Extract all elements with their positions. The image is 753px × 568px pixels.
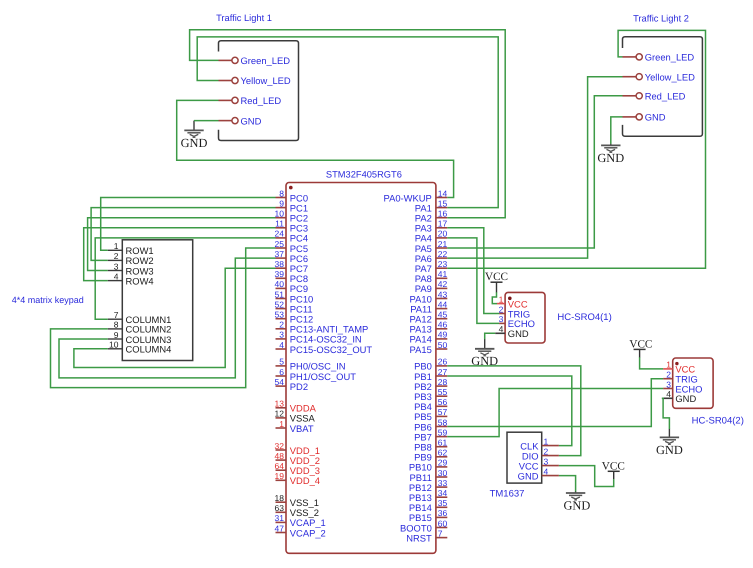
U1 pin 33 PB12 [409,478,448,493]
svg-text:GND: GND [656,443,683,457]
svg-text:Green_LED: Green_LED [241,55,291,66]
microcontroller U1 STM32F405RGT6 [286,170,436,554]
svg-text:19: 19 [275,471,285,481]
svg-text:1: 1 [666,360,671,370]
svg-text:10: 10 [109,340,119,350]
U1 pin 12 VSSA [275,409,316,424]
svg-text:2: 2 [666,370,671,380]
svg-text:3: 3 [499,314,504,324]
svg-text:TM1637: TM1637 [490,488,525,499]
svg-text:3: 3 [114,261,119,271]
svg-text:GND: GND [675,393,696,404]
svg-text:1: 1 [499,294,504,304]
U1 pin 14 PA0-WKUP [384,188,448,203]
HC-SR04(2) pin 4 GND [662,389,697,404]
svg-text:61: 61 [438,438,448,448]
HC-SRO4(1) pin 2 TRIG [499,304,531,319]
svg-text:49: 49 [438,330,448,340]
svg-text:HC-SRO4(1): HC-SRO4(1) [557,312,611,323]
power symbol VCC at HC-SRO4(1) [485,271,508,293]
ground symbol at TM1637 [563,491,590,512]
wire PA4 to HC-SRO4(1) ECHO [447,238,499,324]
HC-SRO4(1) pin 1 VCC [497,294,528,309]
svg-text:NRST: NRST [406,532,432,543]
traffic light module Traffic Light 1 [216,13,298,141]
U1 pin 41 PA8 [415,269,448,284]
svg-text:3: 3 [666,379,671,389]
wire PA2 to TL1 Green_LED [190,30,506,218]
power symbol VCC at HC-SR04(2) [629,339,652,358]
traffic light module Traffic Light 2 [623,14,703,137]
ultrasonic module HC-SR04(2) [673,358,713,408]
svg-text:31: 31 [275,513,285,523]
svg-text:26: 26 [438,357,448,367]
svg-text:35: 35 [438,498,448,508]
svg-text:33: 33 [438,478,448,488]
wire PC1 to keypad ROW2 [91,208,275,261]
keypad pin 3 ROW3 [108,261,154,276]
svg-text:47: 47 [275,523,285,533]
U1 pin 26 PB0 [414,357,447,372]
U1 pin 32 VDD_1 [275,441,321,456]
svg-text:8: 8 [279,188,284,198]
svg-text:36: 36 [438,508,448,518]
U1 pin 23 PA7 [415,259,448,274]
wire PC7 to keypad COLUMN4 [74,268,276,367]
U1 pin 60 BOOT0 [400,518,448,533]
U1 pin 51 PC10 [275,289,314,304]
svg-text:37: 37 [275,249,285,259]
svg-text:59: 59 [438,427,448,437]
wire PA3 to HC-SRO4(1) TRIG [447,228,499,314]
svg-text:63: 63 [275,503,285,513]
TL1 pin Yellow_LED [219,75,291,86]
svg-text:Green_LED: Green_LED [645,52,695,63]
svg-text:15: 15 [438,198,448,208]
svg-text:Red_LED: Red_LED [645,91,686,102]
svg-text:29: 29 [438,458,448,468]
svg-text:GND: GND [518,470,539,481]
TL1 pin Green_LED [219,55,291,66]
TM1637 pin 3 VCC [519,456,559,471]
svg-text:45: 45 [438,310,448,320]
svg-text:STM32F405RGT6: STM32F405RGT6 [326,170,402,180]
wire PA1 to TL1 Yellow_LED [197,37,498,208]
svg-text:38: 38 [275,259,285,269]
ultrasonic module HC-SRO4(1) [505,292,545,343]
U1 pin 53 PC12 [275,310,314,325]
svg-text:ROW4: ROW4 [126,275,154,286]
ground symbol at HC-SR04(2) [656,429,683,457]
keypad pin 10 COLUMN4 [108,340,172,355]
svg-text:4*4 matrix keypad: 4*4 matrix keypad [12,295,84,305]
HC-SR04(2) pin 3 ECHO [663,379,702,394]
svg-text:VCC: VCC [485,271,508,283]
svg-text:4: 4 [279,340,284,350]
U1 pin 4 PC15-OSC32_OUT [276,340,373,355]
wire PB6 to HC-SR04(2) TRIG [447,379,663,427]
U1 pin 30 PB11 [410,468,448,483]
keypad pin 9 COLUMN3 [108,330,172,345]
svg-text:VDD_4: VDD_4 [290,475,320,486]
TL2 pin Green_LED [623,52,695,63]
wire TM1637 GND to ground [559,476,576,492]
U1 pin 6 PH1/OSC_OUT [276,367,357,382]
svg-text:25: 25 [275,239,285,249]
U1 pin 48 VDD_2 [275,451,321,466]
svg-text:GND: GND [508,328,529,339]
U1 pin 34 PB13 [409,488,448,503]
U1 pin 36 PB15 [409,508,448,523]
svg-text:Yellow_LED: Yellow_LED [645,71,695,82]
svg-text:8: 8 [114,320,119,330]
svg-text:32: 32 [275,441,285,451]
U1 pin 52 PC11 [275,299,313,314]
U1 pin 22 PA6 [415,249,448,264]
svg-text:50: 50 [438,340,448,350]
U1 pin 55 PB3 [414,387,447,402]
TM1637 pin 1 CLK [520,436,559,451]
HC-SR04(2) pin 1 VCC [663,360,695,375]
svg-text:18: 18 [275,493,285,503]
TL1 pin GND [219,115,262,126]
U1 pin 45 PA12 [410,310,448,325]
U1 pin 46 PA13 [410,320,448,335]
svg-text:13: 13 [275,399,285,409]
HC-SRO4(1) pin 4 GND [495,324,529,339]
U1 pin 39 PC8 [275,269,309,284]
keypad pin 1 ROW1 [108,241,154,256]
display driver module TM1637 [507,432,542,483]
svg-text:GND: GND [563,498,590,512]
svg-text:Yellow_LED: Yellow_LED [241,75,291,86]
wire PB1 to TM1637 CLK [447,376,572,446]
svg-text:12: 12 [275,409,285,419]
U1 pin 40 PC9 [275,279,309,294]
U1 pin 47 VCAP_2 [275,523,326,538]
svg-text:VCC: VCC [602,461,625,473]
svg-text:Traffic Light 1: Traffic Light 1 [216,13,272,23]
U1 pin 16 PA2 [415,209,448,224]
svg-text:34: 34 [438,488,448,498]
U1 pin 1 VBAT [276,419,314,434]
svg-text:GND: GND [597,151,624,165]
wire TL2 GND to ground [611,117,623,144]
svg-text:GND: GND [241,115,262,126]
U1 pin 27 PB1 [414,367,447,382]
svg-text:20: 20 [438,229,448,239]
wire HC-SRO4(1) VCC to power [492,292,497,303]
svg-text:22: 22 [438,249,448,259]
svg-text:Traffic Light 2: Traffic Light 2 [633,14,689,24]
svg-text:3: 3 [279,330,284,340]
U1 pin 7 NRST [406,528,447,543]
svg-text:53: 53 [275,310,285,320]
wire PB7 to HC-SR04(2) ECHO [447,389,663,437]
U1 pin 31 VCAP_1 [275,513,326,528]
U1 pin 42 PA9 [415,279,448,294]
keypad pin 4 ROW4 [108,271,154,286]
U1 pin 13 VDDA [275,399,317,414]
svg-text:9: 9 [279,198,284,208]
keypad pin 8 COLUMN2 [108,320,172,335]
TM1637 pin 2 DIO [522,446,559,461]
svg-text:57: 57 [438,407,448,417]
svg-text:6: 6 [279,367,284,377]
U1 pin 11 PC3 [275,219,308,234]
U1 pin 20 PA4 [415,229,448,244]
svg-text:64: 64 [275,461,285,471]
TL2 pin Red_LED [623,91,686,102]
U1 pin 3 PC14-OSC32_IN [276,330,362,345]
U1 pin 8 PC0 [276,188,309,203]
svg-text:GND: GND [181,136,208,150]
wire HC-SR04(2) GND to ground [662,398,670,429]
svg-text:21: 21 [438,239,448,249]
svg-text:4: 4 [499,324,504,334]
svg-text:16: 16 [438,209,448,219]
TM1637 pin 4 GND [518,466,559,481]
U1 pin 38 PC7 [275,259,309,274]
svg-text:51: 51 [275,289,285,299]
U1 pin 28 PB2 [414,377,447,392]
svg-text:40: 40 [275,279,285,289]
wire PC4 to keypad COLUMN1 [95,238,275,319]
svg-text:42: 42 [438,279,448,289]
wire PB0 to TM1637 DIO [447,366,581,456]
svg-text:PD2: PD2 [290,381,308,392]
U1 pin 29 PB10 [409,458,448,473]
svg-text:VCC: VCC [629,339,652,351]
wire TL1 GND to ground [194,120,219,122]
svg-text:56: 56 [438,397,448,407]
ground symbol at Traffic Light 1 [181,121,208,150]
svg-text:24: 24 [275,229,285,239]
U1 pin 59 PB7 [414,427,447,442]
U1 pin 19 VDD_4 [275,471,321,486]
U1 pin 49 PA14 [410,330,448,345]
svg-text:Red_LED: Red_LED [241,95,282,106]
svg-text:7: 7 [438,528,443,538]
svg-text:27: 27 [438,367,448,377]
wire PA7 to TL2 Green_LED [447,30,705,268]
U1 pin 43 PA10 [410,289,448,304]
svg-text:3: 3 [544,456,549,466]
U1 pin 63 VSS_2 [275,503,319,518]
U1 pin 18 VSS_1 [275,493,319,508]
svg-text:55: 55 [438,387,448,397]
U1 pin 15 PA1 [415,198,448,213]
svg-text:44: 44 [438,299,448,309]
svg-text:1: 1 [544,436,549,446]
U1 pin 50 PA15 [410,340,448,355]
U1 pin 10 PC2 [275,209,309,224]
svg-text:2: 2 [544,446,549,456]
wire PC3 to keypad ROW4 [84,228,276,281]
U1 pin 57 PB5 [414,407,447,422]
svg-text:46: 46 [438,320,448,330]
svg-text:54: 54 [275,377,285,387]
svg-text:4: 4 [666,389,671,399]
wire PC2 to keypad ROW3 [88,218,276,271]
svg-text:17: 17 [438,219,448,229]
wire PA0-WKUP to TL1 Red_LED [177,100,454,197]
svg-text:2: 2 [499,304,504,314]
power symbol VCC at TM1637 [602,461,625,480]
svg-text:VCAP_2: VCAP_2 [290,527,326,538]
keypad pin 2 ROW2 [108,251,154,266]
svg-text:GND: GND [645,112,666,123]
wire TM1637 VCC to power [559,466,614,487]
U1 pin 21 PA5 [415,239,448,254]
U1 pin 58 PB6 [414,417,447,432]
svg-text:23: 23 [438,259,448,269]
svg-text:48: 48 [275,451,285,461]
U1 pin 37 PC6 [275,249,309,264]
svg-text:62: 62 [438,448,448,458]
svg-text:HC-SR04(2): HC-SR04(2) [692,416,744,427]
TL2 pin GND [623,112,666,123]
svg-text:28: 28 [438,377,448,387]
wire HC-SRO4(1) GND to ground [485,333,496,339]
U1 pin 24 PC4 [275,229,309,244]
wire PA5 to TL2 Red_LED [447,96,622,248]
svg-text:41: 41 [438,269,448,279]
svg-text:52: 52 [275,299,285,309]
keypad module 4*4 matrix keypad [122,240,192,361]
svg-text:PC15-OSC32_OUT: PC15-OSC32_OUT [290,344,373,355]
svg-text:10: 10 [275,209,285,219]
svg-text:1: 1 [279,419,284,429]
svg-text:43: 43 [438,289,448,299]
svg-text:1: 1 [114,241,119,251]
U1 pin 62 PB9 [414,448,447,463]
U1 pin 2 PC13-ANTI_TAMP [276,320,369,335]
wire PA6 to TL2 Yellow_LED [447,77,622,258]
U1 pin 44 PA11 [410,299,447,314]
svg-text:2: 2 [279,320,284,330]
wire PC5 to keypad COLUMN2 [51,248,276,388]
U1 pin 35 PB14 [409,498,448,513]
svg-text:PA15: PA15 [410,344,432,355]
svg-text:2: 2 [114,251,119,261]
keypad pin 7 COLUMN1 [108,310,172,325]
svg-text:60: 60 [438,518,448,528]
U1 pin 25 PC5 [275,239,309,254]
wire PC6 to keypad COLUMN3 [59,258,276,378]
svg-text:7: 7 [114,310,119,320]
TL2 pin Yellow_LED [623,71,696,82]
HC-SRO4(1) pin 3 ECHO [499,314,535,329]
ground symbol at HC-SRO4(1) [471,339,498,368]
svg-text:30: 30 [438,468,448,478]
svg-text:5: 5 [279,357,284,367]
svg-text:11: 11 [275,219,284,229]
wire HC-SR04(2) VCC to power [640,357,664,369]
svg-text:14: 14 [438,188,448,198]
U1 pin 64 VDD_3 [275,461,321,476]
svg-text:39: 39 [275,269,285,279]
svg-text:COLUMN4: COLUMN4 [126,344,172,355]
svg-text:9: 9 [114,330,119,340]
U1 pin 17 PA3 [415,219,448,234]
TL1 pin Red_LED [219,95,282,106]
wire PC0 to keypad ROW1 [101,198,276,251]
svg-text:4: 4 [544,466,549,476]
svg-text:4: 4 [114,271,119,281]
U1 pin 54 PD2 [275,377,309,392]
U1 pin 9 PC1 [276,198,309,213]
ground symbol at Traffic Light 2 [597,144,624,165]
svg-text:VBAT: VBAT [290,423,314,434]
HC-SR04(2) pin 2 TRIG [663,370,698,385]
U1 pin 56 PB4 [414,397,447,412]
svg-text:58: 58 [438,417,448,427]
U1 pin 5 PH0/OSC_IN [276,357,346,372]
U1 pin 61 PB8 [414,438,447,453]
